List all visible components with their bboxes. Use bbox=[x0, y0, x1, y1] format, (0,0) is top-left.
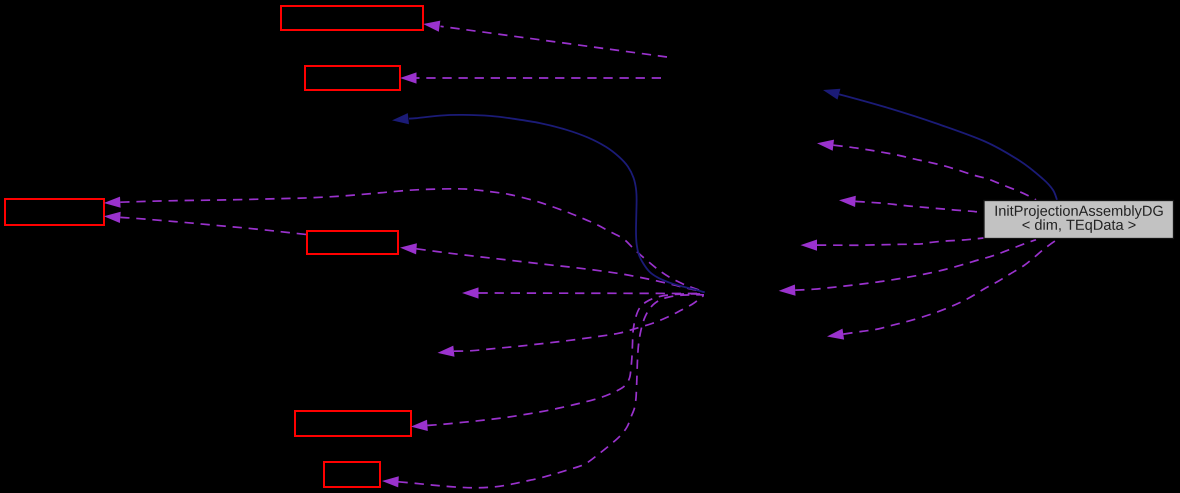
usage edge from main node to R5 (dashed) bbox=[843, 240, 1057, 334]
main node label line 2 bbox=[1023, 219, 1136, 233]
arrowhead mid horizontal bbox=[462, 287, 479, 298]
arrowhead to F bbox=[382, 476, 399, 487]
inheritance edge B1 (solid blue) bbox=[409, 115, 705, 292]
arrowhead to B bbox=[400, 72, 417, 83]
usage edge to node B (dashed) bbox=[417, 77, 662, 79]
arrowhead R4 bbox=[779, 285, 796, 296]
arrowhead to C upper bbox=[104, 197, 121, 208]
usage edge to node C upper (dashed) bbox=[120, 189, 703, 292]
arrowhead to D bbox=[400, 243, 417, 254]
class node box F (truncated, red) bbox=[324, 462, 380, 487]
class node box C (truncated, red) bbox=[5, 199, 104, 225]
usage edge from main node to R2 (dashed) bbox=[856, 201, 984, 212]
usage edge from main node to R3 (dashed) bbox=[817, 238, 984, 245]
usage edge to node C lower (dashed) bbox=[120, 217, 310, 235]
arrowhead to A bbox=[423, 21, 440, 32]
class node box E (truncated, red) bbox=[295, 411, 411, 436]
arrowhead R3 bbox=[801, 240, 818, 251]
main class node InitProjectionAssemblyDG bbox=[984, 201, 1174, 239]
arrowhead R2 bbox=[839, 196, 856, 207]
arrowhead mid low bbox=[438, 346, 455, 357]
arrowhead blue B2 bbox=[823, 89, 840, 100]
arrowhead R1 bbox=[817, 140, 834, 151]
class node box B (truncated, red) bbox=[305, 66, 400, 90]
arrowhead blue B1 bbox=[392, 113, 409, 124]
usage edge from main node to R1 (dashed) bbox=[833, 145, 1036, 200]
arrowhead R5 bbox=[827, 329, 844, 340]
usage edge to node A (dashed) bbox=[441, 26, 668, 57]
arrowhead to E bbox=[411, 420, 428, 431]
usage edge horizontal to mid node (dashed) bbox=[479, 292, 704, 295]
main node label line 1 bbox=[996, 205, 1163, 219]
usage edge to node F (dashed) bbox=[399, 295, 705, 488]
usage edge to mid-low node (dashed) bbox=[454, 296, 704, 352]
arrowhead to C lower bbox=[104, 212, 121, 223]
usage edge to node E (dashed) bbox=[427, 294, 703, 425]
class node box A (truncated, red) bbox=[281, 6, 423, 30]
class node box D (truncated, red) bbox=[307, 231, 398, 254]
inheritance edge B2 (solid blue) bbox=[839, 94, 1057, 200]
usage edge to node D (dashed) bbox=[417, 249, 704, 292]
usage edge from main node to R4 (dashed) bbox=[795, 240, 1036, 290]
